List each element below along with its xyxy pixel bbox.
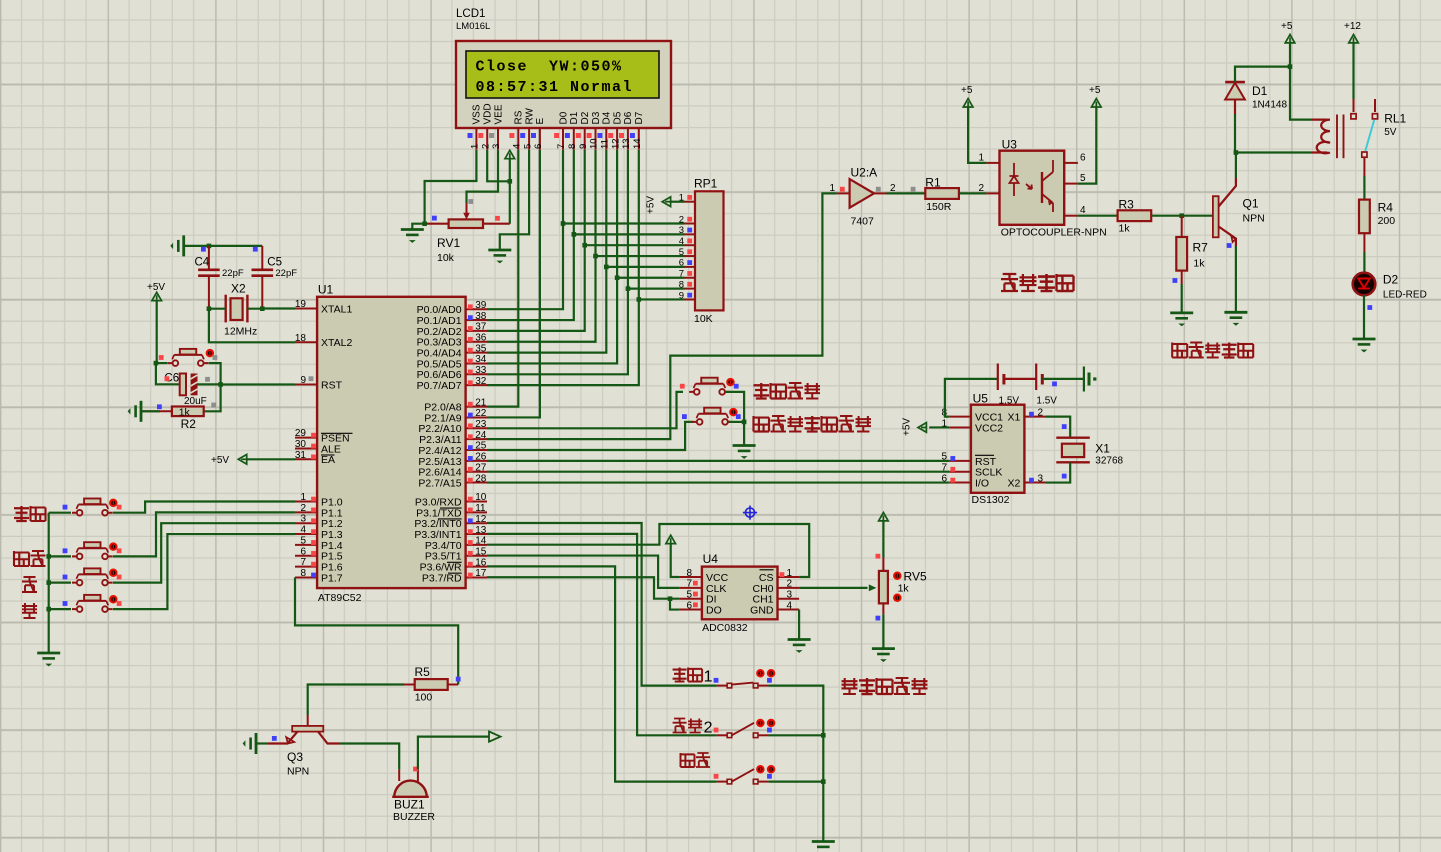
wire remote right to ground rail bbox=[726, 392, 744, 446]
junction VDD/+5 bbox=[508, 179, 513, 184]
svg-text:9: 9 bbox=[578, 144, 589, 149]
svg-text:R5: R5 bbox=[415, 665, 431, 679]
wire reset button right down to RST row bbox=[209, 363, 221, 384]
svg-text:25: 25 bbox=[475, 441, 487, 452]
svg-text:13: 13 bbox=[475, 525, 487, 536]
U1 pin 2 P1.1 bbox=[295, 503, 343, 519]
LCD pin 3 VEE bbox=[489, 104, 504, 150]
svg-text:2: 2 bbox=[1038, 407, 1044, 418]
svg-text:2: 2 bbox=[480, 144, 491, 149]
wire VSS net LCD pin1 to RV1 left bbox=[425, 150, 477, 224]
svg-text:24: 24 bbox=[475, 430, 487, 441]
resistor R7 1k vertical bbox=[1176, 237, 1208, 271]
svg-text:LCD1: LCD1 bbox=[456, 8, 485, 20]
wire C6 right to RST node and RST row bbox=[198, 383, 296, 385]
wire D7 column LCD to P0.7 and RP1 pin9 bbox=[487, 150, 685, 385]
U1 pin 13 P3.3/INT1 bbox=[414, 525, 487, 541]
U5 pin 8 VCC1 bbox=[941, 407, 1003, 423]
label hongwai1 bbox=[673, 668, 713, 686]
junction proximity rail bbox=[742, 420, 747, 425]
LCD pin 12 D5 bbox=[608, 111, 623, 149]
wire ground to C4 C5 top bbox=[184, 245, 263, 247]
svg-text:LM016L: LM016L bbox=[456, 21, 490, 32]
wire P2.4 to proximity switch bbox=[487, 422, 693, 450]
wire node down to R7 bbox=[1181, 216, 1183, 237]
U4 pin 6 DO bbox=[679, 600, 722, 616]
svg-text:28: 28 bbox=[475, 473, 487, 484]
relay RL1 coil bbox=[1311, 115, 1344, 159]
svg-text:2: 2 bbox=[679, 214, 684, 225]
svg-text:6: 6 bbox=[533, 144, 544, 149]
svg-text:ADC0832: ADC0832 bbox=[702, 622, 748, 634]
U1 pin 36 P0.3/AD3 bbox=[417, 332, 487, 348]
svg-text:VSS: VSS bbox=[472, 104, 483, 124]
red square C6 bbox=[165, 376, 170, 381]
red square U2 input bbox=[840, 187, 845, 192]
svg-text:31: 31 bbox=[295, 450, 307, 461]
U5 pin 3 X2 bbox=[1008, 473, 1046, 489]
svg-text:5: 5 bbox=[679, 247, 684, 258]
U1 pin 5 P1.4 bbox=[295, 535, 343, 551]
svg-text:U2:A: U2:A bbox=[851, 166, 878, 180]
U1 pin 1 P1.0 bbox=[295, 492, 343, 508]
svg-text:3: 3 bbox=[491, 144, 502, 149]
RP1 pin 7 bbox=[679, 269, 695, 280]
svg-text:1N4148: 1N4148 bbox=[1252, 100, 1287, 111]
U1 pin 33 P0.6/AD6 bbox=[417, 365, 487, 381]
svg-text:5: 5 bbox=[300, 535, 306, 546]
RP1 pin 6 bbox=[679, 258, 695, 269]
red square buzzer pin bbox=[413, 767, 418, 772]
resistor pack RP1 body bbox=[694, 177, 724, 326]
LED D2 LED-RED bbox=[1353, 273, 1427, 301]
wire Q3 collector to buzzer bbox=[339, 744, 399, 770]
junction collector coil D1 bbox=[1234, 150, 1239, 155]
LCD pin 13 D6 bbox=[619, 111, 634, 149]
svg-text:1: 1 bbox=[704, 669, 713, 686]
origin marker crosshair bbox=[743, 506, 757, 520]
U1 pin 14 P3.4/T0 bbox=[425, 536, 487, 552]
wire D4 column LCD to P0.4 and RP1 pin6 bbox=[487, 150, 685, 353]
microcontroller U1 AT89C52 body bbox=[317, 283, 466, 605]
svg-text:15: 15 bbox=[475, 546, 487, 557]
svg-text:RW: RW bbox=[524, 107, 535, 124]
resistor R2 1k bbox=[172, 407, 204, 432]
wire P3.4 to U4 CS loop bbox=[487, 524, 809, 577]
ground left of C4 C5 bbox=[170, 235, 183, 256]
U1 pin 4 P1.3 bbox=[295, 525, 343, 541]
RP1 pin 5 bbox=[679, 247, 695, 258]
svg-text:11: 11 bbox=[475, 503, 486, 514]
junction rail IR2 bbox=[821, 733, 826, 738]
LCD pin 2 VDD bbox=[478, 103, 493, 149]
U1 pin 27 P2.6/A14 bbox=[418, 462, 487, 478]
svg-text:32: 32 bbox=[475, 376, 487, 387]
svg-text:5V: 5V bbox=[1384, 127, 1397, 138]
svg-text:Close YW:050%: Close YW:050% bbox=[476, 59, 623, 76]
svg-text:6: 6 bbox=[300, 546, 306, 557]
ground under R7 bbox=[1170, 313, 1193, 326]
svg-text:+5: +5 bbox=[1089, 85, 1101, 96]
svg-text:39: 39 bbox=[475, 300, 487, 311]
wire P3.7 to U4 DI DO bbox=[487, 577, 679, 598]
svg-text:R4: R4 bbox=[1378, 201, 1394, 215]
switch hongwai2 bbox=[714, 720, 775, 738]
blue square C5 bbox=[253, 247, 258, 252]
svg-text:1.5V: 1.5V bbox=[1036, 396, 1057, 407]
svg-text:1.5V: 1.5V bbox=[999, 396, 1020, 407]
svg-text:VDD: VDD bbox=[483, 103, 494, 124]
U5 pin 6 I/O bbox=[941, 473, 989, 489]
wire junction down to coil top bbox=[1290, 67, 1311, 120]
svg-text:BUZZER: BUZZER bbox=[393, 811, 435, 823]
label hongwai2 bbox=[673, 719, 713, 737]
ground under RW bbox=[488, 250, 511, 263]
blue state square RV1 left bbox=[432, 216, 437, 221]
svg-text:C5: C5 bbox=[267, 257, 282, 269]
svg-text:NPN: NPN bbox=[1243, 213, 1265, 225]
svg-text:12: 12 bbox=[610, 138, 621, 149]
U4 pin 1 CS bbox=[759, 568, 799, 584]
svg-text:10K: 10K bbox=[694, 313, 713, 325]
svg-text:I/O: I/O bbox=[975, 477, 989, 489]
LCD pin 7 D0 bbox=[554, 111, 569, 149]
svg-text:14: 14 bbox=[475, 536, 487, 547]
svg-text:+12: +12 bbox=[1344, 21, 1361, 32]
LCD pin 6 E bbox=[531, 118, 546, 150]
LCD pin 10 D3 bbox=[587, 111, 602, 149]
svg-text:NPN: NPN bbox=[287, 766, 309, 778]
switch zhendong bbox=[714, 766, 775, 784]
svg-text:22pF: 22pF bbox=[275, 268, 297, 279]
svg-text:7407: 7407 bbox=[851, 216, 875, 228]
power +5 at U4 VCC bbox=[666, 535, 679, 577]
U1 pin 32 P0.7/AD7 bbox=[417, 376, 487, 392]
U5 pin 1 VCC2 bbox=[941, 418, 1003, 434]
wire R3 to base node bbox=[1151, 215, 1213, 217]
wire button ground bus bbox=[48, 513, 50, 653]
ground under U4 bbox=[788, 640, 811, 653]
wire coil bottom to collector node bbox=[1236, 151, 1311, 153]
wire proximity right to rail junction bbox=[729, 421, 744, 423]
LCD pin 4 RS bbox=[509, 110, 524, 149]
relay RL1 contact bbox=[1351, 99, 1407, 157]
svg-text:U3: U3 bbox=[1002, 138, 1018, 152]
RP1 pin 8 bbox=[679, 279, 695, 290]
red state square RV1 right bbox=[495, 216, 500, 221]
svg-text:BUZ1: BUZ1 bbox=[394, 798, 425, 812]
blue square R2 left bbox=[157, 404, 162, 409]
svg-text:+5: +5 bbox=[1281, 21, 1293, 32]
U1 pin 22 P2.1/A9 bbox=[424, 408, 487, 424]
blue square Q3 emitter bbox=[272, 736, 277, 741]
junction +5 relay bbox=[1288, 64, 1293, 69]
blue square X1 bottom bbox=[1062, 474, 1067, 479]
label guanggeli bbox=[1001, 274, 1074, 291]
LCD pin 5 RW bbox=[520, 107, 535, 149]
wire LED to ground bbox=[1363, 295, 1365, 339]
wire P2.6 to U5 SCLK bbox=[487, 471, 949, 473]
svg-text:8: 8 bbox=[567, 144, 578, 149]
svg-text:35: 35 bbox=[475, 343, 487, 354]
U1 pin 9 RST bbox=[295, 375, 343, 391]
svg-text:+5V: +5V bbox=[147, 282, 165, 293]
svg-text:4: 4 bbox=[300, 525, 306, 536]
svg-text:RST: RST bbox=[321, 379, 343, 391]
wire P1.7 to R5 bbox=[295, 578, 458, 685]
U3 pin1 stub bbox=[986, 162, 999, 164]
ground left of Q3 bbox=[243, 733, 256, 754]
svg-text:RL1: RL1 bbox=[1384, 112, 1406, 126]
wire P2.5 to U5 RST bbox=[487, 460, 949, 462]
label jian bbox=[22, 603, 37, 618]
power +5V arrow at RP1 pin1 bbox=[646, 196, 685, 214]
svg-text:6: 6 bbox=[679, 258, 684, 269]
gray square RST wire bbox=[205, 377, 210, 382]
ground left of R2 bbox=[128, 401, 141, 422]
blue square R5 right bbox=[456, 677, 461, 682]
wire cell2 to terminal bbox=[1042, 378, 1084, 380]
U1 pin 19 XTAL1 bbox=[295, 299, 353, 315]
wire to reset button bbox=[156, 362, 168, 364]
svg-text:RV1: RV1 bbox=[437, 236, 460, 250]
power +5V left with label bbox=[147, 282, 165, 363]
U4 pin 4 GND bbox=[750, 600, 799, 616]
svg-text:20uF: 20uF bbox=[184, 396, 207, 407]
svg-text:1k: 1k bbox=[1119, 223, 1131, 235]
svg-text:+5: +5 bbox=[961, 85, 973, 96]
svg-text:4: 4 bbox=[1080, 205, 1086, 216]
svg-text:RP1: RP1 bbox=[694, 177, 718, 191]
svg-text:08:57:31 Normal: 08:57:31 Normal bbox=[476, 79, 634, 96]
svg-text:36: 36 bbox=[475, 332, 487, 343]
svg-text:P1.7: P1.7 bbox=[321, 572, 343, 584]
ground under RV5 bbox=[872, 649, 895, 662]
svg-text:DS1302: DS1302 bbox=[972, 494, 1010, 506]
svg-text:10: 10 bbox=[475, 492, 487, 503]
junction +5V button bbox=[154, 361, 159, 366]
svg-text:VEE: VEE bbox=[493, 104, 504, 124]
svg-text:200: 200 bbox=[1378, 215, 1396, 227]
U4 pin 3 CH1 bbox=[752, 590, 799, 606]
svg-text:VCC2: VCC2 bbox=[975, 422, 1003, 434]
svg-text:18: 18 bbox=[295, 333, 307, 344]
svg-text:RS: RS bbox=[514, 110, 525, 124]
junction RV1 left node bbox=[422, 221, 427, 226]
U1 pin 35 P0.4/AD4 bbox=[417, 343, 487, 359]
wire D1 column LCD to P0.1 and RP1 pin3 bbox=[487, 150, 685, 320]
wire button 2 to P1.1 bbox=[49, 512, 295, 556]
svg-text:30: 30 bbox=[295, 439, 307, 450]
junction bus b3 bbox=[46, 580, 51, 585]
svg-text:X2: X2 bbox=[1008, 477, 1021, 489]
svg-text:+5V: +5V bbox=[902, 418, 913, 436]
LCD pin 11 D4 bbox=[597, 111, 612, 149]
U5 pin 2 X1 bbox=[1008, 407, 1046, 423]
svg-text:29: 29 bbox=[295, 428, 307, 439]
svg-text:D4: D4 bbox=[602, 111, 613, 124]
svg-text:12: 12 bbox=[475, 514, 487, 525]
wire U2 out to R1 bbox=[887, 192, 926, 194]
svg-text:2: 2 bbox=[787, 579, 793, 590]
svg-text:RV5: RV5 bbox=[904, 570, 927, 584]
svg-text:P2.7/A15: P2.7/A15 bbox=[418, 477, 461, 489]
U1 pin 23 P2.2/A10 bbox=[418, 419, 487, 435]
wire Q3 emitter to ground bbox=[256, 742, 268, 744]
svg-text:7: 7 bbox=[686, 579, 692, 590]
ADC U4 ADC0832 body bbox=[702, 552, 778, 634]
U4 pin 8 VCC bbox=[679, 568, 728, 584]
wire P3.3 to IR2 bbox=[487, 534, 717, 735]
label jia bbox=[22, 577, 37, 592]
svg-text:9: 9 bbox=[300, 375, 306, 386]
power +5 at RV5 bbox=[879, 513, 889, 558]
svg-text:23: 23 bbox=[475, 419, 487, 430]
push button 4 bbox=[63, 595, 122, 612]
svg-text:8: 8 bbox=[300, 568, 306, 579]
U5 pin 7 SCLK bbox=[941, 463, 1002, 479]
wire R7 to ground bbox=[1181, 271, 1183, 284]
U1 pin 29 PSEN bbox=[295, 428, 353, 444]
svg-text:1k: 1k bbox=[1193, 258, 1205, 270]
svg-text:21: 21 bbox=[475, 397, 487, 408]
svg-text:D2: D2 bbox=[1383, 273, 1399, 287]
svg-text:4: 4 bbox=[787, 600, 793, 611]
op-amp buffer U2:A 7407 bbox=[829, 166, 896, 228]
U1 pin 26 P2.5/A13 bbox=[418, 452, 487, 468]
wire VEE net to RV1 wiper bbox=[467, 150, 499, 203]
svg-text:EA: EA bbox=[321, 454, 335, 466]
wire D5 column LCD to P0.5 and RP1 pin7 bbox=[487, 150, 685, 364]
svg-text:X1: X1 bbox=[1008, 412, 1021, 424]
U1 pin 31 EA bbox=[295, 450, 335, 466]
junction base node bbox=[1179, 213, 1184, 218]
svg-text:8: 8 bbox=[686, 568, 692, 579]
junction X2 right bbox=[260, 306, 265, 311]
wire U4 CH0 to RV5 wiper bbox=[799, 587, 867, 589]
svg-text:1: 1 bbox=[978, 152, 984, 163]
svg-text:12MHz: 12MHz bbox=[224, 326, 257, 338]
wire DI to DO bbox=[670, 599, 679, 610]
svg-text:X2: X2 bbox=[231, 282, 246, 296]
svg-text:1: 1 bbox=[829, 183, 835, 194]
U1 pin 17 P3.7/RD bbox=[422, 568, 487, 584]
U1 pin 24 P2.3/A11 bbox=[419, 430, 487, 446]
resistor R3 1k bbox=[1118, 198, 1152, 235]
junction bus b4 bbox=[46, 607, 51, 612]
svg-text:22: 22 bbox=[475, 408, 487, 419]
svg-text:GND: GND bbox=[750, 604, 774, 616]
power +5V at EA bbox=[211, 455, 295, 467]
resistor R4 200 bbox=[1359, 200, 1395, 234]
svg-text:26: 26 bbox=[475, 452, 487, 463]
ground at RV1 bbox=[401, 230, 424, 243]
U1 pin 12 P3.2/INT0 bbox=[414, 514, 487, 530]
junction RST node bbox=[218, 382, 223, 387]
junction bus b2 bbox=[46, 554, 51, 559]
terminal pin green cell bbox=[1084, 367, 1096, 392]
wire RS column LCD pin4 to P2.0 row bbox=[487, 150, 518, 407]
svg-text:D1: D1 bbox=[1252, 84, 1268, 98]
svg-text:+5V: +5V bbox=[211, 455, 229, 466]
svg-text:34: 34 bbox=[475, 354, 487, 365]
svg-text:1: 1 bbox=[470, 144, 481, 149]
svg-text:C4: C4 bbox=[195, 257, 210, 269]
wire button 1 to P1.0 bbox=[49, 502, 295, 513]
U5 pin 5 RST bbox=[941, 452, 996, 468]
RP1 pin 9 bbox=[679, 290, 695, 301]
capacitor C5 22pF bbox=[252, 246, 298, 309]
switch yuancheng (remote) button bbox=[680, 378, 739, 395]
LCD pin 1 VSS bbox=[468, 104, 483, 150]
svg-text:D0: D0 bbox=[558, 111, 569, 124]
svg-text:P3.7/RD: P3.7/RD bbox=[422, 572, 462, 584]
ground under LED bbox=[1353, 339, 1376, 352]
battery cell BT2 1.5V bbox=[1036, 364, 1057, 407]
svg-text:OPTOCOUPLER-NPN: OPTOCOUPLER-NPN bbox=[1001, 227, 1107, 239]
svg-text:5: 5 bbox=[522, 144, 533, 149]
U1 pin 16 P3.6/WR bbox=[420, 557, 487, 573]
wire D3 column LCD to P0.3 and RP1 pin5 bbox=[487, 150, 685, 342]
wire IR2 right to rail bbox=[768, 734, 823, 736]
red square RV5 top bbox=[876, 554, 881, 559]
U4 pin 7 CLK bbox=[679, 579, 726, 595]
svg-text:R2: R2 bbox=[181, 417, 197, 431]
svg-text:U4: U4 bbox=[703, 552, 719, 566]
resistor R5 100 bbox=[404, 665, 458, 704]
wire D1 top to +5 junction bbox=[1235, 67, 1290, 83]
svg-text:16: 16 bbox=[475, 557, 487, 568]
junction X2 left bbox=[207, 306, 212, 311]
gray square before R1 bbox=[911, 187, 916, 192]
svg-text:1: 1 bbox=[787, 568, 793, 579]
svg-text:AT89C52: AT89C52 bbox=[318, 592, 362, 604]
blue square RV5 bottom bbox=[876, 616, 881, 621]
wire IR1 right to rail bbox=[768, 686, 823, 842]
LCD pin 14 D7 bbox=[630, 111, 645, 149]
U1 pin 39 P0.0/AD0 bbox=[417, 300, 487, 316]
wire D6 column LCD to P0.6 and RP1 pin8 bbox=[487, 150, 685, 375]
svg-text:6: 6 bbox=[686, 600, 692, 611]
ground sensor rail bbox=[812, 842, 835, 852]
wire R4 to LED bbox=[1363, 233, 1365, 252]
LCD screen bbox=[466, 51, 659, 98]
svg-text:27: 27 bbox=[475, 462, 487, 473]
svg-text:2: 2 bbox=[704, 720, 713, 737]
U1 pin 8 P1.7 bbox=[295, 568, 343, 584]
svg-text:100: 100 bbox=[415, 692, 433, 704]
gray square reset right bbox=[213, 355, 218, 360]
wire VDD net to +5 bbox=[487, 150, 510, 182]
wire cell1 to cell2 bbox=[1004, 378, 1036, 380]
potentiometer RV5 1k bbox=[879, 558, 927, 615]
U3 pin4 stub bbox=[1064, 215, 1078, 217]
blue square under R7 bbox=[1173, 278, 1178, 283]
open arrow right bbox=[489, 732, 501, 742]
svg-text:4: 4 bbox=[679, 236, 684, 247]
U1 pin 7 P1.6 bbox=[295, 557, 343, 573]
svg-text:R1: R1 bbox=[925, 176, 941, 190]
wire P2.2 to remote switch bbox=[487, 392, 683, 428]
push button 3 bbox=[63, 568, 122, 585]
U1 pin 3 P1.2 bbox=[295, 514, 343, 530]
svg-text:13: 13 bbox=[621, 138, 632, 149]
wire U5 X1 pin to crystal bbox=[1046, 417, 1070, 438]
svg-text:D7: D7 bbox=[634, 111, 645, 124]
U1 pin 34 P0.5/AD5 bbox=[417, 354, 487, 370]
svg-text:R3: R3 bbox=[1119, 198, 1135, 212]
label sanjiguan bbox=[1172, 343, 1253, 358]
